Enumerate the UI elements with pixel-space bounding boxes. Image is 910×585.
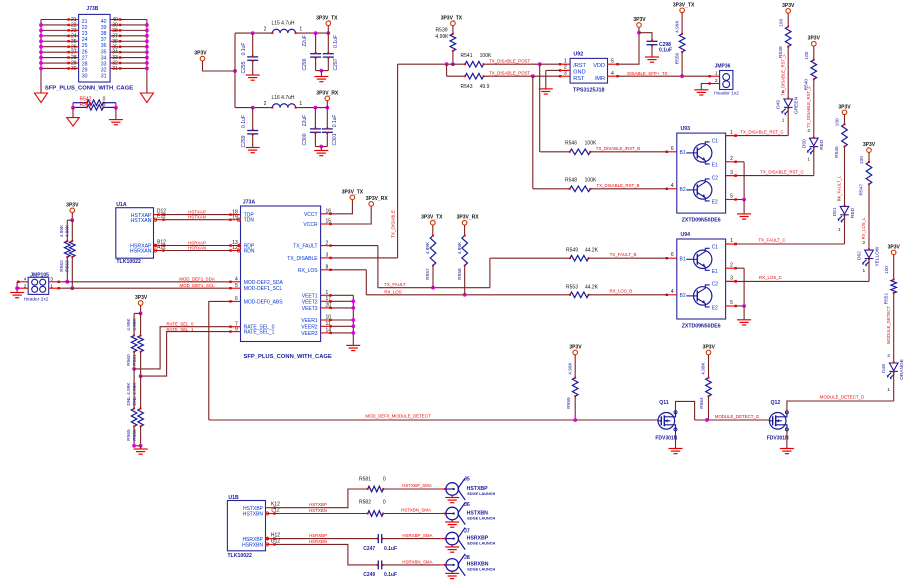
ic U93 ZXTD09N50DE6: [677, 133, 726, 213]
wire RX_LOS_C (U94 pin3 to D62): [726, 280, 736, 282]
junction VEET bus: [351, 331, 355, 335]
resistor R565 DNL 4.99K: [133, 369, 135, 409]
wire VCCT to 3P3V_TX: [321, 213, 331, 215]
svg-text:4.99K: 4.99K: [126, 317, 132, 330]
wire JMP36 pin 2 to ground: [710, 83, 720, 85]
ground under C296 C297: [314, 77, 328, 82]
wire TX_DISABLE_RST_C (U93 pin1 to D49): [726, 135, 736, 137]
svg-text:0: 0: [383, 477, 386, 483]
svg-text:Q11: Q11: [659, 400, 669, 406]
svg-text:J7: J7: [464, 528, 470, 534]
capacitor C301 0.1uF: [326, 108, 328, 129]
svg-text:1: 1: [782, 118, 785, 124]
svg-text:1: 1: [887, 387, 890, 393]
resistor R548 100K: [533, 188, 570, 190]
wire MOD_DEF2_SDA: [49, 281, 59, 283]
resistor R551 100: [893, 255, 895, 280]
svg-text:3P3V_RX: 3P3V_RX: [366, 196, 389, 202]
capacitor C247 0.1uF: [378, 534, 381, 543]
ground J73B right: [140, 93, 153, 103]
junction left bus: [39, 39, 43, 43]
svg-text:R549: R549: [566, 248, 578, 254]
svg-text:4.99K: 4.99K: [567, 361, 573, 374]
junction R563 bottom: [70, 286, 74, 290]
junction left bus: [39, 67, 43, 71]
svg-text:RX_LOS: RX_LOS: [384, 289, 401, 294]
svg-text:RX_LOS_C: RX_LOS_C: [759, 275, 782, 280]
svg-text:MOD-DEF2_SDA: MOD-DEF2_SDA: [244, 280, 284, 286]
svg-text:1: 1: [730, 238, 733, 244]
svg-text:44.2K: 44.2K: [585, 248, 599, 254]
resistor R539 4.99K: [452, 26, 454, 34]
power 3P3V_RX (R558): [462, 220, 467, 225]
resistor R538 100: [787, 13, 789, 26]
resistor R543 49.9: [447, 75, 466, 77]
wire U92 VDD to 3P3V: [608, 63, 618, 65]
junction VEET bus: [351, 306, 355, 310]
svg-text:4.99K: 4.99K: [701, 361, 707, 374]
junction filter input: [233, 69, 237, 73]
power 3P3V (R545): [842, 110, 847, 115]
svg-text:VCCR: VCCR: [303, 222, 318, 228]
resistor R546 100K: [540, 151, 570, 153]
svg-text:ZXTD09N50DE6: ZXTD09N50DE6: [682, 218, 721, 224]
svg-text:C1: C1: [712, 245, 719, 251]
svg-text:TX_FAULT_C: TX_FAULT_C: [758, 238, 785, 243]
wire J73B pin 28 left: [41, 57, 69, 59]
junction right bus: [145, 45, 149, 49]
junction right bus: [145, 34, 149, 38]
svg-text:R582: R582: [359, 500, 371, 506]
svg-text:R543: R543: [461, 84, 473, 90]
led D49 GREEN: [782, 99, 793, 114]
svg-text:R547: R547: [859, 184, 865, 196]
bubble G12: [266, 543, 269, 546]
power 3P3V (R560 R561): [138, 301, 143, 306]
svg-text:100: 100: [835, 118, 841, 126]
wire J73B pin 34 right: [110, 51, 120, 53]
svg-text:R545: R545: [834, 146, 840, 158]
resistor R540 100: [813, 46, 815, 60]
wire cap bottoms TX: [316, 70, 329, 72]
power 3P3V_TX (R557): [431, 220, 436, 225]
svg-text:HSTXBN: HSTXBN: [243, 512, 264, 518]
svg-text:B2: B2: [680, 187, 686, 193]
svg-text:3: 3: [326, 253, 329, 259]
svg-text:B1: B1: [680, 150, 686, 156]
junction RATE_SEL_1 tap: [139, 374, 143, 378]
ground J7: [445, 547, 459, 552]
svg-text:SFP_PLUS_CONN_WITH_CAGE: SFP_PLUS_CONN_WITH_CAGE: [45, 86, 133, 92]
ic U94 ZXTD09N50DE6: [677, 239, 726, 319]
wire U93 emitters: [736, 161, 745, 163]
svg-text:R539: R539: [436, 28, 448, 34]
svg-text:C301: C301: [332, 133, 338, 145]
wire J5 ground: [451, 495, 453, 498]
svg-text:TX_FAULT: TX_FAULT: [384, 282, 406, 287]
wire Q12 drain to D48: [787, 401, 894, 413]
junction left bus: [39, 45, 43, 49]
svg-text:3P3V: 3P3V: [135, 295, 148, 301]
star B12: [153, 244, 157, 248]
svg-text:FDV301N: FDV301N: [655, 436, 677, 442]
svg-text:HSTXBP_SMA: HSTXBP_SMA: [402, 483, 432, 488]
svg-text:3P3V: 3P3V: [569, 345, 582, 351]
transistor Q1 of U93: [694, 144, 712, 162]
wire HSRXBN_SMA: [382, 564, 440, 566]
svg-text:3P3V_RX: 3P3V_RX: [316, 90, 339, 96]
junction R559: [573, 418, 577, 422]
junction 3P3V_TX tap: [326, 31, 330, 35]
wire D62 cathode: [868, 259, 870, 282]
svg-text:4.99K: 4.99K: [59, 224, 65, 237]
svg-text:D62: D62: [857, 251, 863, 260]
svg-text:MOD-DEF0_ABS: MOD-DEF0_ABS: [244, 299, 284, 305]
capacitor C297 0.1uF: [327, 33, 329, 54]
svg-text:RATE_SEL_0: RATE_SEL_0: [166, 321, 194, 326]
pin 4 U94: [667, 294, 677, 296]
svg-text:R563: R563: [64, 260, 70, 272]
svg-text:2: 2: [730, 156, 733, 162]
svg-text:3P3V: 3P3V: [703, 345, 716, 351]
junction R539: [451, 62, 455, 66]
pin 3 U94: [726, 280, 736, 282]
svg-text:44.2K: 44.2K: [585, 284, 599, 290]
wire to ground U94: [743, 306, 745, 320]
junction C300: [314, 106, 318, 110]
ground VEET bus: [346, 345, 360, 350]
wire J73B right bus: [146, 20, 148, 94]
junction right bus: [145, 67, 149, 71]
wire Q11 source to ground: [675, 429, 677, 448]
wire TX rail: [235, 32, 272, 34]
wire J6 ground: [451, 519, 453, 522]
bubble L12: [266, 512, 269, 515]
svg-text:EDGE LAUNCH: EDGE LAUNCH: [467, 568, 495, 572]
wire 3P3V to filter: [203, 61, 236, 71]
wire Q11 drain: [676, 401, 695, 420]
svg-text:2: 2: [887, 353, 890, 359]
svg-text:HSRXBP_SMA: HSRXBP_SMA: [402, 533, 432, 538]
wire 3P3V_RX: [326, 101, 328, 108]
star H12: [265, 537, 269, 541]
resistor R541 100K: [447, 63, 466, 65]
junction R556: [680, 74, 684, 78]
wire J73B pin 37 right: [110, 35, 120, 37]
svg-text:FDV301N: FDV301N: [767, 436, 789, 442]
svg-text:RST: RST: [573, 76, 585, 82]
junction cap bottom: [320, 69, 324, 73]
svg-text:31: 31: [112, 66, 118, 72]
svg-text:MODULE_DETECT_G: MODULE_DETECT_G: [715, 414, 760, 419]
junction VEET bus: [351, 318, 355, 322]
svg-text:EDGE LAUNCH: EDGE LAUNCH: [467, 541, 495, 545]
wire U92 pin3 to R548: [532, 76, 534, 189]
svg-text:EDGE LAUNCH: EDGE LAUNCH: [467, 492, 495, 496]
svg-text:TX_DISABLE: TX_DISABLE: [287, 256, 318, 262]
wire to ground: [320, 71, 322, 77]
svg-text:2: 2: [564, 65, 567, 71]
svg-text:U1B: U1B: [228, 495, 239, 501]
wire D51 cathode: [844, 215, 846, 244]
svg-text:TX_DISABLE_POST: TX_DISABLE_POST: [489, 70, 530, 75]
junction right bus: [145, 23, 149, 27]
wire HSTXBN_SMA: [383, 513, 440, 515]
wire 3P3V_TX: [327, 26, 329, 33]
ground under C299: [246, 148, 260, 153]
svg-text:3P3V_TX: 3P3V_TX: [342, 189, 364, 195]
wire MODULE_DETECT_G: [695, 419, 770, 421]
connector J73B: [79, 14, 111, 82]
svg-text:TX_DISABLE_RST_L: TX_DISABLE_RST_L: [806, 85, 811, 127]
wire J8 ground: [451, 571, 453, 574]
svg-text:R581: R581: [359, 477, 371, 483]
svg-text:GND: GND: [573, 70, 585, 76]
resistor R545 100: [844, 115, 846, 125]
power 3P3V (R562 R563): [70, 208, 75, 213]
wire U92 /MR net DISABLE_SFP+_TX: [608, 75, 618, 77]
wire R547 to LED: [868, 184, 870, 250]
junction R562 top: [70, 218, 74, 222]
svg-text:TX_DISABLE_RST_B: TX_DISABLE_RST_B: [596, 183, 639, 188]
pin 6 U93: [667, 151, 677, 153]
wire U94 emitters: [736, 267, 745, 269]
svg-text:E12: E12: [157, 214, 166, 220]
svg-text:VDD: VDD: [593, 63, 605, 69]
bubble RDN: [237, 249, 240, 252]
svg-text:3P3V: 3P3V: [863, 142, 876, 148]
ground J5: [445, 498, 459, 503]
wire J73B pin 35 right: [110, 46, 120, 48]
svg-text:RATE_SEL_1: RATE_SEL_1: [166, 327, 194, 332]
svg-text:R557: R557: [425, 268, 431, 280]
svg-text:5: 5: [611, 58, 614, 64]
resistor R581 0: [368, 486, 384, 492]
transistor Q2 of U94: [694, 287, 712, 305]
junction emitters U93: [742, 198, 746, 202]
ground under R542: [67, 118, 80, 127]
svg-text:J8: J8: [464, 555, 470, 561]
ground U92 pin 2: [539, 89, 553, 94]
power 3P3V (R547): [867, 148, 872, 153]
svg-text:RED: RED: [819, 139, 825, 150]
svg-text:C295: C295: [241, 61, 247, 73]
svg-text:EDGE LAUNCH: EDGE LAUNCH: [467, 516, 495, 520]
junction R543 branch: [445, 62, 449, 66]
svg-text:B1: B1: [680, 256, 686, 262]
ground JMP105: [10, 293, 24, 298]
svg-text:3P3V: 3P3V: [888, 244, 901, 250]
wire HSTXBP to R581: [275, 489, 368, 508]
resistor R582 0: [368, 511, 384, 517]
svg-text:HSTXAN: HSTXAN: [130, 218, 151, 224]
svg-text:TX_FAULT: TX_FAULT: [293, 244, 317, 250]
pin 1 U93: [726, 135, 736, 137]
ic U1A TLK10022: [116, 208, 154, 259]
inductor L15 4.7uH: [272, 29, 295, 33]
wire J73B left bus: [40, 20, 42, 94]
svg-text:MOD_DEF1_SCL: MOD_DEF1_SCL: [180, 283, 215, 288]
junction right bus: [145, 50, 149, 54]
svg-text:0.1uF: 0.1uF: [332, 115, 338, 128]
power 3P3V (R559): [573, 350, 578, 355]
ground Q12: [780, 449, 794, 454]
svg-text:100K: 100K: [585, 177, 597, 183]
svg-text:E1: E1: [712, 163, 718, 169]
svg-text:3P3V: 3P3V: [66, 202, 79, 208]
wire VCCR to 3P3V_RX: [321, 223, 331, 225]
wire U92 pin1 to R546: [539, 64, 541, 152]
svg-text:HSRXBN: HSRXBN: [242, 543, 263, 549]
star RDP: [237, 244, 241, 248]
svg-text:100: 100: [778, 18, 784, 26]
svg-text:YELLOW: YELLOW: [874, 246, 880, 266]
wire J73B pin 26 left: [41, 46, 69, 48]
svg-text:2: 2: [730, 262, 733, 268]
svg-text:VEET2: VEET2: [302, 299, 318, 305]
svg-text:2: 2: [782, 89, 785, 95]
wire D48 cathode: [893, 371, 895, 401]
wire D50 cathode: [813, 147, 815, 176]
junction right bus: [145, 28, 149, 32]
svg-text:3P3V_TX: 3P3V_TX: [441, 15, 463, 21]
svg-text:ORANGE: ORANGE: [899, 359, 905, 380]
wire filter left vertical: [234, 33, 236, 108]
svg-text:TLK10022: TLK10022: [227, 553, 252, 559]
junction left bus: [39, 28, 43, 32]
ground J6: [445, 522, 459, 527]
wire MOD_DEF0 long net: [209, 419, 658, 421]
wire net HSRXAP: [164, 245, 231, 247]
junction R564: [705, 418, 709, 422]
wire branch down: [446, 64, 448, 76]
power 3P3V_TX (R556): [680, 8, 685, 13]
resistor R547 100: [868, 152, 870, 162]
svg-text:D50: D50: [801, 139, 807, 148]
svg-text:Header 2x2: Header 2x2: [24, 296, 49, 302]
svg-text:RDN: RDN: [244, 249, 255, 255]
pin 2 U94: [726, 267, 736, 269]
wire RX rail: [235, 107, 272, 109]
svg-text:R566: R566: [132, 429, 138, 441]
svg-text:U1A: U1A: [116, 202, 127, 208]
svg-text:TX_FAULT_B: TX_FAULT_B: [610, 252, 637, 257]
svg-text:MODULE_DETECT: MODULE_DETECT: [886, 306, 891, 344]
junction left bus: [39, 50, 43, 54]
svg-text:1: 1: [299, 101, 302, 107]
svg-text:VEER1: VEER1: [301, 318, 318, 324]
svg-text:3: 3: [730, 170, 733, 176]
svg-text:0.1uF: 0.1uF: [384, 572, 397, 578]
ground J73B left: [35, 93, 48, 103]
svg-text:4.99K: 4.99K: [425, 241, 431, 254]
wire TX_DISABLE_RST_C (U93 pin3 to D50): [726, 175, 736, 177]
svg-text:D49: D49: [776, 100, 782, 109]
svg-text:1: 1: [299, 27, 302, 33]
svg-text:J5: J5: [464, 477, 470, 483]
junction JMP105 gnd: [15, 286, 19, 290]
svg-text:0.1uF: 0.1uF: [241, 115, 247, 128]
svg-text:3P3V: 3P3V: [194, 51, 207, 57]
svg-text:HSTXBN_SMA: HSTXBN_SMA: [401, 508, 431, 513]
svg-text:6: 6: [671, 252, 674, 258]
power 3P3V (R540): [812, 41, 817, 46]
svg-text:TDN: TDN: [244, 218, 255, 224]
svg-text:4.99K: 4.99K: [674, 20, 680, 33]
wire J73B pin 29 left: [41, 62, 69, 64]
capacitor C249 0.1uF: [378, 560, 381, 569]
pin 5 U94: [726, 305, 736, 307]
capacitor C298 0.1uF: [639, 33, 652, 42]
wire J7 ground: [451, 544, 453, 547]
wire J73B pin 23 left: [41, 29, 69, 31]
svg-text:4.99K: 4.99K: [435, 34, 449, 40]
wire to right ground: [115, 108, 117, 120]
svg-text:J73B: J73B: [86, 6, 98, 12]
svg-text:6: 6: [671, 146, 674, 152]
wire D49 cathode: [787, 107, 789, 135]
power 3P3V (R538): [786, 9, 791, 14]
svg-text:R551: R551: [883, 293, 889, 305]
wire J73B pin 22 left: [41, 24, 69, 26]
svg-text:TX_DISABLE_POST: TX_DISABLE_POST: [489, 58, 530, 63]
power 3P3V_RX (filter out): [325, 96, 330, 101]
svg-text:TX_DISABLE_RST_C: TX_DISABLE_RST_C: [740, 129, 783, 134]
wire MOD_DEF1_SCL: [49, 287, 59, 289]
svg-text:1: 1: [838, 227, 841, 233]
svg-text:MOD_DEF0_MODULE_DETECT: MOD_DEF0_MODULE_DETECT: [365, 413, 430, 418]
junction cap bottom RX: [319, 145, 323, 149]
svg-text:B2: B2: [680, 293, 686, 299]
svg-text:/RST: /RST: [573, 63, 586, 69]
svg-text:HSRXBN_SMA: HSRXBN_SMA: [402, 559, 432, 564]
wire U92 GND pin 2: [560, 69, 570, 71]
svg-text:1: 1: [564, 58, 567, 64]
svg-text:0.1uF: 0.1uF: [241, 43, 247, 56]
resistor R559 4.99K: [574, 355, 576, 378]
svg-text:E2: E2: [712, 306, 718, 312]
wire HSTXBP_SMA: [383, 488, 440, 490]
pin 6 U94: [667, 257, 677, 259]
svg-text:A12: A12: [157, 245, 166, 251]
svg-text:U94: U94: [681, 232, 691, 238]
transistor Q1 of U94: [694, 250, 712, 268]
resistor R549 44.2K: [490, 257, 570, 259]
svg-text:2: 2: [838, 196, 841, 202]
svg-text:Q12: Q12: [770, 400, 780, 406]
svg-text:TX_DISABLE_RST_C: TX_DISABLE_RST_C: [760, 169, 803, 174]
svg-text:3P3V: 3P3V: [808, 36, 821, 42]
led D62 YELLOW: [863, 250, 874, 265]
svg-text:RATE_SEL_1: RATE_SEL_1: [244, 330, 275, 336]
pin 2 U93: [726, 161, 736, 163]
power 3P3V_TX (VCCT): [350, 195, 355, 200]
svg-text:TPS3125J18: TPS3125J18: [573, 87, 604, 93]
bubble TDN: [237, 218, 240, 221]
junction right bus: [145, 39, 149, 43]
svg-text:D51: D51: [832, 207, 838, 216]
ic U1B TLK10022: [227, 501, 265, 551]
wire R545 to LED: [844, 147, 846, 207]
wire HSRXBN to C249: [275, 544, 379, 565]
wire 3P3V to R560 R561: [140, 305, 142, 313]
svg-text:VCCT: VCCT: [304, 212, 318, 218]
wire J73B pin 33 right: [110, 57, 120, 59]
svg-text:30: 30: [71, 66, 77, 72]
wire HSRXBP to C247: [275, 538, 379, 540]
wire J73B pin 38 right: [110, 29, 120, 31]
ground U94: [737, 320, 751, 325]
